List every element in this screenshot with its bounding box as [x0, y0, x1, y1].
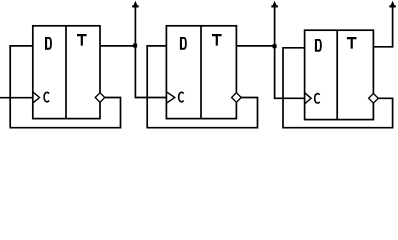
- arrow head output Q0: [132, 1, 138, 8]
- flip-flop U3 clock triangle: [305, 93, 312, 104]
- arrow head output Q1: [271, 1, 277, 8]
- wire: node B vertical, output arrow up and clock to FF3: [275, 8, 305, 99]
- flip-flop U2 box: [166, 26, 236, 119]
- label C pin FF2: [179, 92, 184, 101]
- label C pin FF1: [44, 92, 49, 101]
- label T pin FF2: [212, 34, 222, 46]
- node B junction dot: [273, 44, 277, 48]
- arrow head output Q2: [389, 1, 395, 8]
- label T pin FF1: [77, 34, 87, 46]
- label D pin FF1: [45, 37, 52, 50]
- FF1 inverted output diamond: [95, 93, 105, 103]
- label C pin FF3: [315, 94, 320, 103]
- flip-flop U2 clock triangle: [166, 92, 174, 103]
- wire: FF2 toggle feedback Q-bar to D: [147, 46, 257, 128]
- wire: FF1 Q output to node A: [100, 45, 135, 47]
- wire: clock input to FF1: [0, 97, 33, 99]
- flip-flop U1 box: [33, 26, 100, 119]
- flip-flop U3 box: [305, 30, 374, 119]
- wire: FF1 toggle feedback Q-bar to D: [10, 46, 120, 128]
- wire: FF2 Q output to node B: [236, 45, 274, 47]
- FF3 inverted output diamond: [369, 94, 379, 104]
- node A junction dot: [133, 44, 137, 48]
- wire: FF3 toggle feedback Q-bar to D: [283, 48, 393, 128]
- wire: node A vertical, output arrow up and clock to FF2: [135, 8, 166, 98]
- label D pin FF3: [315, 39, 322, 52]
- flip-flop U3 divider: [336, 30, 338, 119]
- flip-flop U1 clock triangle: [33, 92, 40, 103]
- label T pin FF3: [347, 37, 357, 49]
- wire: FF3 Q output up to arrow: [373, 8, 392, 47]
- label D pin FF2: [180, 37, 187, 50]
- FF2 inverted output diamond: [232, 93, 242, 103]
- flip-flop U1 divider: [65, 26, 67, 119]
- flip-flop U2 divider: [200, 26, 202, 119]
